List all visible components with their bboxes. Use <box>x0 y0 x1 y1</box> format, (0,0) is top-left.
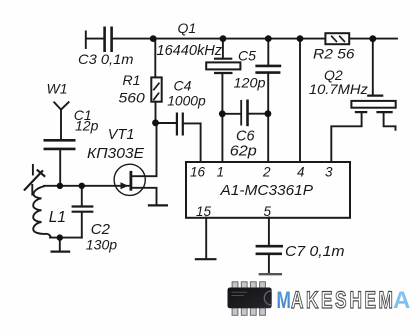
svg-text:C3 0,1m: C3 0,1m <box>78 51 134 67</box>
svg-text:130p: 130p <box>86 237 118 253</box>
svg-text:62p: 62p <box>230 144 257 160</box>
svg-text:1: 1 <box>217 165 225 180</box>
svg-text:S: S <box>335 287 347 313</box>
svg-text:1000p: 1000p <box>167 92 206 108</box>
svg-text:120p: 120p <box>234 75 266 91</box>
svg-text:VT1: VT1 <box>108 127 135 143</box>
svg-text:5: 5 <box>264 204 272 219</box>
svg-text:W1: W1 <box>47 81 68 97</box>
svg-text:4: 4 <box>297 165 305 180</box>
svg-text:A1-MC3361P: A1-MC3361P <box>219 182 313 199</box>
svg-text:10.7MHz: 10.7MHz <box>309 81 368 97</box>
svg-text:A: A <box>291 287 303 313</box>
svg-text:C2: C2 <box>91 221 111 238</box>
svg-text:M: M <box>276 287 290 313</box>
svg-text:C4: C4 <box>174 78 192 94</box>
svg-text:16440kHz: 16440kHz <box>157 43 223 59</box>
svg-text:2: 2 <box>262 165 271 180</box>
svg-text:C6: C6 <box>236 129 255 145</box>
svg-text:K: K <box>306 287 318 313</box>
svg-text:3: 3 <box>325 165 333 180</box>
svg-text:C5: C5 <box>238 48 256 64</box>
svg-text:E: E <box>321 287 333 313</box>
svg-text:R1: R1 <box>123 72 141 88</box>
svg-text:L1: L1 <box>49 209 66 226</box>
svg-text:12p: 12p <box>75 117 99 133</box>
svg-text:16: 16 <box>190 165 206 180</box>
svg-text:M: M <box>379 287 393 313</box>
svg-text:H: H <box>349 287 361 313</box>
svg-text:A: A <box>393 287 410 314</box>
svg-text:R2 56: R2 56 <box>313 46 355 62</box>
svg-text:КП303Е: КП303Е <box>87 145 145 162</box>
svg-text:15: 15 <box>196 204 212 219</box>
svg-text:E: E <box>365 287 377 313</box>
svg-text:560: 560 <box>119 89 146 105</box>
svg-text:C7 0,1m: C7 0,1m <box>285 244 345 260</box>
svg-text:Q1: Q1 <box>178 20 197 36</box>
